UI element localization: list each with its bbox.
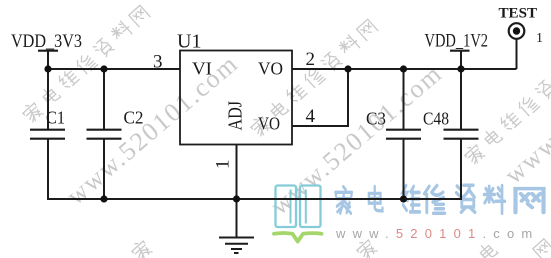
svg-text:www.520101.com: www.520101.com: [335, 226, 539, 241]
svg-text:VDD_1V2: VDD_1V2: [425, 31, 489, 52]
svg-text:4: 4: [306, 106, 316, 127]
svg-text:3: 3: [153, 52, 163, 73]
svg-text:C3: C3: [366, 109, 386, 129]
svg-text:C2: C2: [124, 108, 144, 128]
svg-text:U1: U1: [177, 31, 201, 53]
svg-text:1: 1: [536, 31, 543, 46]
svg-text:C1: C1: [46, 108, 65, 128]
svg-text:1: 1: [213, 160, 234, 170]
svg-text:C48: C48: [423, 109, 449, 129]
svg-text:ADJ: ADJ: [225, 101, 247, 131]
svg-text:VO: VO: [258, 114, 280, 134]
svg-text:VDD_3V3: VDD_3V3: [11, 31, 82, 52]
svg-text:VI: VI: [192, 59, 212, 79]
svg-text:VO: VO: [258, 59, 283, 79]
svg-text:www.520101.com: www.520101.com: [499, 27, 551, 189]
svg-text:2: 2: [306, 49, 316, 70]
svg-text:TEST: TEST: [499, 6, 538, 22]
